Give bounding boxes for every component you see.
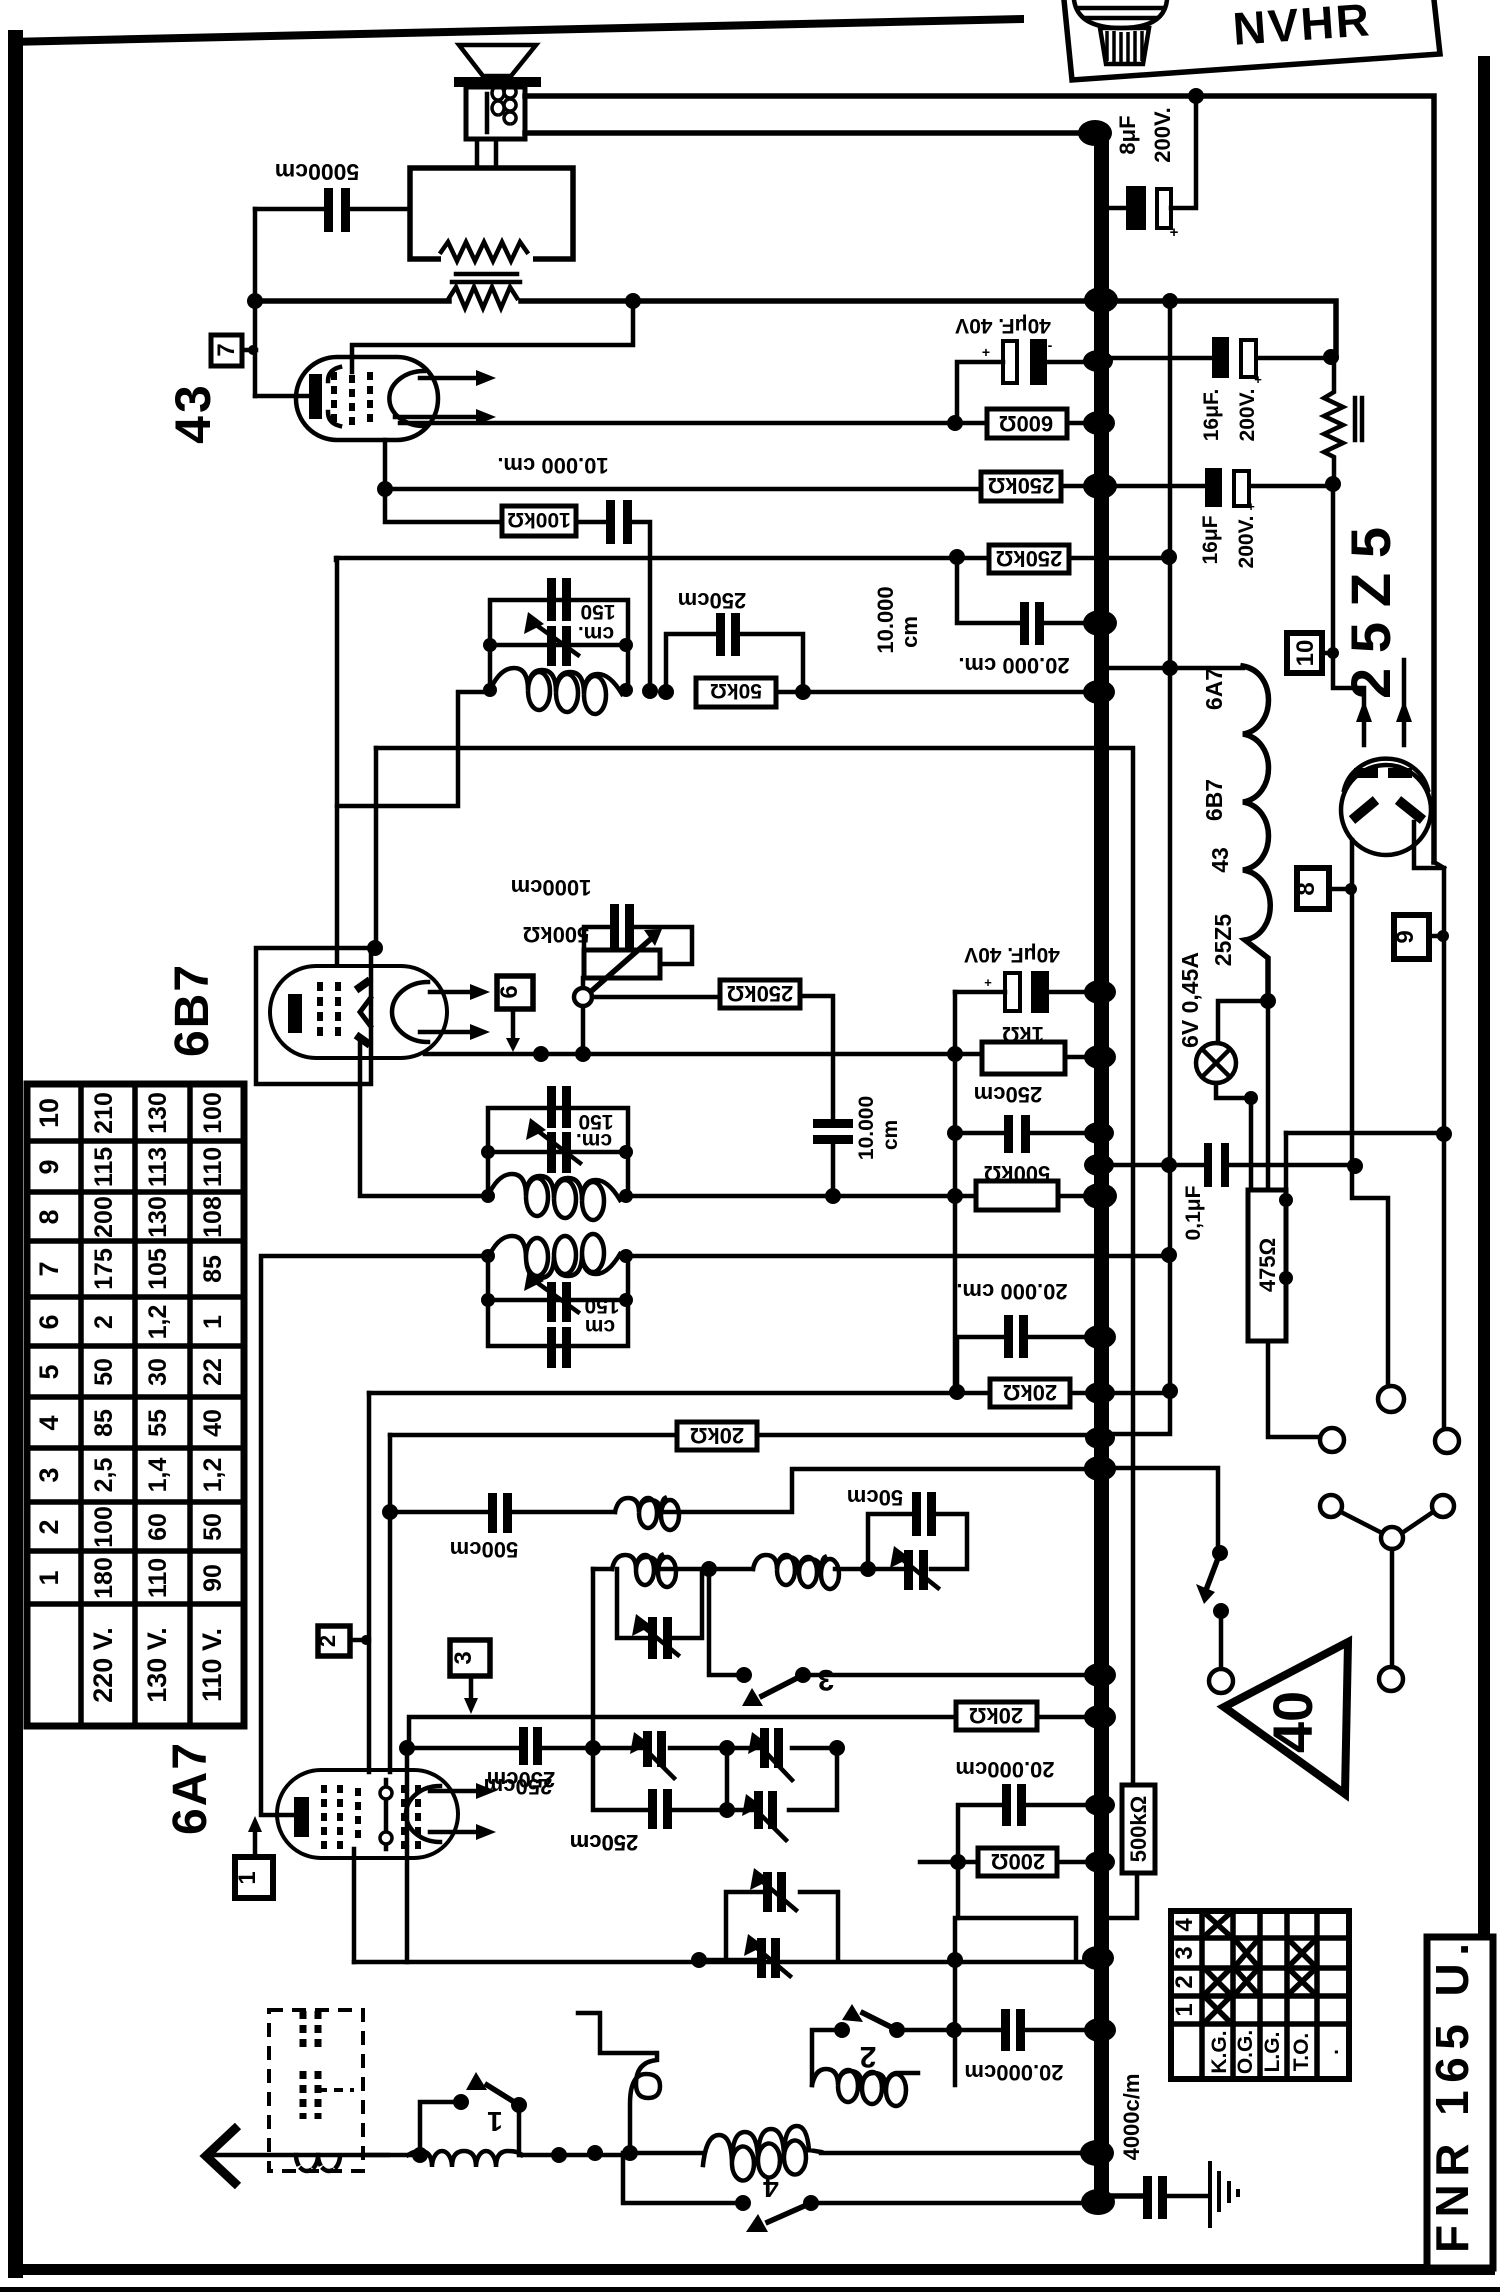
junction blob bus y=1337 [1084, 1325, 1116, 1349]
junction blob bus top [1078, 120, 1112, 146]
oscillator x=593 link [591, 1569, 596, 1748]
junction dot 583,1054 [575, 1046, 591, 1062]
bandswitch 2 [812, 2004, 954, 2085]
heater labels 6A7 6B7 43 25Z5 6V 0,45A [1177, 668, 1236, 1048]
voltage table [27, 1084, 244, 1726]
svg-text:150: 150 [580, 600, 615, 623]
tube 6B7 shield box [256, 948, 371, 1084]
capacitor 20.000cm antenna [954, 2009, 1094, 2085]
junction blob bus y=1440 [1085, 1427, 1115, 1449]
oscillator trimmer under C1 [617, 1569, 702, 1659]
svg-text:180: 180 [90, 1557, 118, 1599]
border frame top (sloped scan) [8, 15, 1024, 46]
svg-text:3: 3 [818, 1663, 835, 1696]
junction dot 1170,1391 [1162, 1383, 1178, 1399]
junction blob bus y=362 [1083, 350, 1113, 372]
NVHR stamp box [1064, 0, 1440, 80]
svg-text:10.000 cm.: 10.000 cm. [497, 453, 608, 478]
resistor 600 ohm [955, 409, 1094, 438]
capacitor 250cm [947, 1082, 1042, 1153]
wire AVC bottom y=1054 [425, 1052, 982, 1057]
svg-text:10: 10 [1292, 640, 1319, 667]
junction dot 1169,1255 [1161, 1247, 1177, 1263]
junction blob bus y=992 [1084, 980, 1116, 1004]
wire x=390 drop to 6A7 [388, 1435, 393, 1772]
wire y=300 main B line [255, 301, 1336, 357]
label 10.000 om [873, 586, 922, 653]
svg-text:100: 100 [90, 1506, 118, 1548]
svg-text:cm: cm [879, 1120, 902, 1150]
IF transformer 3 frame (below) [488, 1256, 628, 1346]
junction blob bus y=1805 [1085, 1794, 1115, 1816]
svg-text:4: 4 [34, 1415, 64, 1430]
IF3 coil on top wire [488, 1234, 620, 1278]
svg-text:90: 90 [199, 1564, 227, 1592]
svg-text:4: 4 [1171, 1918, 1198, 1932]
junction dot 955,1196 [947, 1188, 963, 1204]
IF1 junction dots [483, 638, 633, 697]
svg-text:2: 2 [1171, 1975, 1198, 1988]
svg-text:40μF. 40V: 40μF. 40V [955, 314, 1051, 337]
svg-text:85: 85 [199, 1255, 227, 1283]
junction dot 955,1960 [947, 1952, 963, 1968]
junction dot 255,301 [247, 293, 263, 309]
tube 6B7 envelope [270, 966, 447, 1058]
wire heater chain end to resistor 475 [1266, 1001, 1271, 1190]
capacitor 5000cm [255, 159, 410, 232]
svg-text:T.O.: T.O. [1290, 2033, 1313, 2072]
svg-text:16μF.: 16μF. [1200, 389, 1223, 442]
wire osc cathode y=1918 [955, 1918, 1076, 2085]
svg-text:43: 43 [165, 382, 221, 444]
capacitor 10.000cm coupling [813, 1096, 902, 1196]
IF3 junction dots [481, 1249, 633, 1307]
tube 6A7 grids [324, 1780, 418, 1849]
svg-text:110 V.: 110 V. [197, 1628, 227, 1702]
junction blob bus bottom [1081, 2189, 1115, 2215]
svg-text:60: 60 [144, 1513, 172, 1541]
wire 25Z5 plate line down [1352, 840, 1388, 1386]
earth ground symbol [1210, 2161, 1238, 2228]
svg-text:50kΩ: 50kΩ [710, 679, 762, 702]
svg-text:4000c/m: 4000c/m [1119, 2074, 1144, 2161]
terminal box 1 [234, 1816, 273, 1898]
RF coil 4 loops [703, 2126, 1094, 2181]
junction dot 1357,1166 [1347, 1158, 1363, 1174]
wire osc grid drop x=406 [405, 1748, 410, 1962]
antenna arrow [206, 2126, 388, 2186]
mains switch on bus [1109, 1468, 1233, 1693]
wire speaker to B+ top rail [525, 96, 1434, 862]
terminal circle 475 line [1320, 1428, 1344, 1452]
svg-text:43: 43 [1207, 847, 1233, 873]
junction blob bus y=423 [1083, 411, 1115, 435]
oscillator trimmer on main line [890, 1546, 938, 1590]
wire IF1 secondary to bus y=692 [776, 690, 1096, 695]
pickup Y terminals [1320, 1495, 1454, 1691]
junction dot 1170,301 [1162, 293, 1178, 309]
tube 25Z5 envelope [1341, 759, 1431, 855]
svg-text:-: - [1048, 337, 1053, 353]
svg-text:20kΩ: 20kΩ [1003, 1380, 1057, 1405]
return line x=1170 [1109, 301, 1170, 1434]
speaker cone [454, 45, 541, 87]
svg-text:115: 115 [90, 1147, 118, 1187]
label 25Z5 large [1339, 527, 1402, 699]
svg-text:6B7: 6B7 [1201, 779, 1227, 821]
capacitor 40uF 40V second [955, 943, 1094, 1013]
svg-text:500kΩ: 500kΩ [1126, 1796, 1151, 1863]
svg-text:+: + [1254, 372, 1262, 387]
resistor 500k vertical [1109, 1785, 1155, 1918]
resistor 100k with coupling cap [385, 489, 650, 688]
svg-text:1,2: 1,2 [144, 1305, 172, 1340]
wire left drop from 5000cm to 43 grid node [253, 209, 258, 396]
voltage table 220V column [88, 1092, 118, 1703]
svg-text:6V 0,45A: 6V 0,45A [1177, 952, 1203, 1048]
svg-text:200V.: 200V. [1235, 516, 1258, 569]
svg-text:10: 10 [34, 1098, 64, 1128]
oscillator grid row y=1748 [407, 1727, 845, 1799]
junction dots 647/663 y=692 [642, 683, 674, 700]
junction dot 1169,1165 [1161, 1157, 1177, 1173]
junction blob bus y=1958 [1082, 1946, 1114, 1970]
svg-text:30: 30 [144, 1358, 172, 1386]
IF3 fixed capacitor [547, 1327, 571, 1368]
terminal box 9 [1392, 915, 1449, 959]
svg-text:1: 1 [199, 1315, 227, 1329]
resistor 250k AVC [989, 545, 1069, 573]
junction blob bus y=300 [1084, 287, 1118, 313]
svg-text:1: 1 [487, 2106, 503, 2137]
svg-text:40μF. 40V: 40μF. 40V [964, 943, 1060, 966]
antenna adapter dashed box [269, 2010, 420, 2171]
border frame bottom [0, 2264, 1500, 2292]
junction blob bus y=1717 [1084, 1705, 1116, 1729]
svg-text:L.G.: L.G. [1261, 2032, 1284, 2073]
svg-text:25Z5: 25Z5 [1339, 527, 1402, 699]
svg-text:cm.: cm. [578, 622, 614, 645]
junction blob bus y=1675 [1084, 1663, 1116, 1687]
junction dot 595,2152 [587, 2145, 603, 2161]
IF1 fixed capacitor 150cm [547, 578, 571, 621]
IF transformer 1 frame [490, 600, 628, 692]
terminal box 2 [315, 1626, 371, 1656]
svg-text:20.000cm: 20.000cm [964, 2060, 1063, 2085]
svg-text:1: 1 [234, 1871, 261, 1884]
IF2 trimmer capacitor 450cm [526, 1110, 614, 1173]
resistor 50k [696, 678, 776, 707]
junction dot 803,692 [795, 684, 811, 700]
junction blob bus y=2153 [1080, 2140, 1114, 2166]
terminal box 8 [1293, 868, 1357, 909]
svg-text:105: 105 [144, 1248, 172, 1290]
junction blob bus y=1196 [1083, 1183, 1117, 1209]
padder capacitor 50cm [847, 1485, 936, 1536]
wire 250cm-to-plate rail y=1133 [1030, 1122, 1444, 1144]
oscillator coil wire y=1569 [593, 1514, 967, 1569]
wire y=1717 with resistor 20k third [409, 1702, 1094, 1748]
junction dot 699,1960 [691, 1952, 707, 1968]
svg-text:+: + [984, 975, 992, 990]
svg-text:250cm: 250cm [678, 588, 747, 613]
tube 43 cathode [255, 374, 322, 419]
wire 43 grid elbow [352, 301, 633, 372]
tube 25Z5 electrodes [1352, 768, 1423, 820]
tube 6B7 plate lead arrows [420, 984, 490, 1040]
svg-text:200V.: 200V. [1150, 107, 1175, 162]
junction blob bus y=2030 [1084, 2018, 1116, 2042]
junction dot 1170,668 [1162, 660, 1178, 676]
junction dot 390,1512 [382, 1504, 398, 1520]
svg-text:130: 130 [144, 1092, 172, 1134]
resistor 475 ohm tapped [1248, 1133, 1293, 1341]
svg-text:1,4: 1,4 [144, 1458, 172, 1493]
svg-text:113: 113 [144, 1147, 172, 1187]
svg-text:7: 7 [34, 1261, 64, 1276]
svg-text:500cm: 500cm [450, 1537, 519, 1562]
svg-text:2,5: 2,5 [90, 1458, 118, 1493]
svg-text:175: 175 [90, 1248, 118, 1290]
svg-text:1: 1 [1171, 2003, 1198, 2016]
junction dot 541,1054 [533, 1046, 549, 1062]
svg-text:cm: cm [585, 1315, 615, 1338]
wire IF3 top to 6A7 cathode line [261, 1256, 488, 1815]
svg-text:250cm: 250cm [974, 1082, 1043, 1107]
wire 6B7 grid-cap vertical [335, 558, 340, 963]
junction dot 957,1392 [949, 1384, 965, 1400]
svg-text:1000cm: 1000cm [511, 875, 592, 900]
svg-text:250cm: 250cm [570, 1830, 639, 1855]
junction blob bus y=623 [1083, 610, 1117, 636]
svg-text:10.000: 10.000 [855, 1096, 878, 1160]
6A7 grid wire y=1960 [354, 1960, 1094, 1965]
wire 25Z5 cathode to B+ rail down right [1414, 822, 1444, 1428]
oscillator coil C1 [612, 1555, 676, 1587]
svg-text:cm: cm [897, 616, 922, 648]
svg-text:6A7: 6A7 [164, 1741, 217, 1835]
HT bus (thick vertical) [1094, 126, 1109, 2208]
tube 43 grids [328, 367, 370, 426]
svg-text:6B7: 6B7 [166, 963, 219, 1057]
svg-text:1: 1 [34, 1570, 64, 1585]
svg-text:2: 2 [860, 2040, 877, 2073]
terminal box 10 [1287, 633, 1339, 673]
svg-text:200V.: 200V. [1236, 389, 1259, 442]
capacitor 20.000cm osc anode [955, 1757, 1094, 1862]
terminal circle plate line [1378, 1386, 1404, 1412]
junction dot 374,948 [367, 940, 383, 956]
svg-text:25Z5: 25Z5 [1210, 914, 1236, 967]
terminal box 7 [211, 335, 258, 366]
svg-text:2: 2 [34, 1519, 64, 1534]
svg-text:5000cm: 5000cm [275, 159, 359, 185]
junction dot 955,1054 [947, 1046, 963, 1062]
pigtail coupling coil [578, 2013, 660, 2161]
wire y=1393 with resistor 20k [369, 1379, 1170, 1407]
padband switch 3 [709, 1571, 1094, 1706]
svg-text:.: . [1320, 2049, 1343, 2055]
svg-text:+: + [982, 344, 990, 360]
svg-text:40: 40 [1261, 1691, 1324, 1753]
svg-text:3: 3 [1171, 1946, 1198, 1959]
label tube 6B7 [166, 963, 219, 1057]
oscillator coil C2 [753, 1555, 839, 1589]
capacitor 1000cm tone [511, 875, 634, 950]
svg-text:NVHR: NVHR [1231, 0, 1373, 55]
svg-text:K.G.: K.G. [1208, 2030, 1231, 2073]
junction dot 955,423 [947, 415, 963, 431]
wire screen line y=748 [376, 748, 1133, 1785]
svg-text:250cm: 250cm [487, 1767, 556, 1792]
junction blob bus y=1862 [1085, 1851, 1115, 1873]
AVC chain vertical x=955 [953, 992, 958, 1393]
svg-text:1kΩ: 1kΩ [1002, 1022, 1044, 1047]
resistor hum (zigzag on main wire) [449, 287, 517, 308]
IF transformer 2 frame [488, 1108, 628, 1196]
junction dot 1333,484 [1325, 476, 1341, 492]
voltage table 110V column [197, 1092, 227, 1702]
wire 6B7 second grid drop [374, 748, 379, 948]
wire IF1 left to 6B7 grid [337, 692, 490, 806]
junction dot 406,1748 [399, 1740, 415, 1756]
capacitor 16uF 200V upper [1109, 337, 1331, 441]
junction blob bus y=486 [1083, 473, 1117, 499]
svg-text:4: 4 [763, 2172, 779, 2203]
junction dot 957,557 [949, 549, 965, 565]
switch table row digits [1171, 1918, 1198, 2017]
svg-text:55: 55 [144, 1409, 172, 1437]
output transformer box [410, 168, 573, 263]
svg-text:475Ω: 475Ω [1255, 1238, 1280, 1292]
svg-text:9: 9 [1392, 930, 1419, 943]
wire speaker box down to output transformer [477, 139, 496, 168]
resistor 250k (screen) [981, 472, 1094, 501]
resistor 200 ohm [920, 1848, 1094, 1918]
svg-text:108: 108 [199, 1196, 227, 1238]
tube 6A7 cathode [294, 1797, 309, 1837]
svg-text:40: 40 [199, 1409, 227, 1437]
svg-text:20kΩ: 20kΩ [690, 1423, 744, 1448]
NVHR text [1231, 0, 1373, 55]
svg-text:5: 5 [34, 1364, 64, 1379]
tube 6B7 grids and diode plates [320, 980, 372, 1045]
terminal box 6 [496, 976, 533, 1052]
IF1 primary coil [490, 668, 622, 714]
svg-text:100kΩ: 100kΩ [507, 508, 571, 531]
speaker voice-coil box [466, 86, 525, 139]
svg-text:85: 85 [90, 1409, 118, 1437]
svg-text:8μF: 8μF [1115, 115, 1140, 154]
junction dot 833,1196 [825, 1188, 841, 1204]
svg-text:8: 8 [1293, 882, 1320, 895]
terminal circle B+ line [1435, 1429, 1459, 1453]
svg-text:6: 6 [496, 985, 523, 998]
junction blob bus y=1469 [1084, 1457, 1116, 1481]
junction dot 1331,357 [1323, 349, 1339, 365]
svg-text:3: 3 [34, 1467, 64, 1482]
svg-text:FNR 165 U.: FNR 165 U. [1426, 1943, 1478, 2253]
svg-text:50: 50 [199, 1513, 227, 1541]
svg-text:500kΩ: 500kΩ [523, 922, 590, 947]
junction dot heater chain end [1260, 993, 1276, 1009]
label tube 43 [165, 382, 221, 444]
tube 43 envelope [296, 357, 438, 440]
capacitor 20.000cm AVC2 [956, 1279, 1094, 1393]
svg-text:210: 210 [90, 1092, 118, 1134]
junction blob bus y=1057 [1084, 1045, 1116, 1069]
svg-text:cm.: cm. [576, 1129, 612, 1152]
voltage table column of pin numbers [34, 1098, 64, 1586]
voltage table 130V column [142, 1092, 172, 1703]
IF2 fixed capacitor [547, 1086, 571, 1128]
IF2 coil [488, 1174, 620, 1220]
svg-text:3: 3 [450, 1651, 477, 1664]
resistor vertical zigzag (filter choke) [1324, 357, 1362, 484]
wire IF3 secondary y=1256 to right [628, 1254, 1169, 1259]
resistor 500k IF2 [976, 1161, 1094, 1210]
junction blob bus y=1165 [1084, 1154, 1114, 1176]
wire x=369 drop to 6A7 [367, 1393, 372, 1772]
capacitor 16uF 200V lower [1109, 468, 1331, 568]
junction dot 559,2155 [551, 2147, 567, 2163]
svg-text:20kΩ: 20kΩ [969, 1703, 1023, 1728]
oscillator feed wire y=1512 with 500cm cap and coupling coil [390, 1469, 1094, 1562]
junction dots oscillator [701, 1561, 876, 1577]
svg-text:+: + [1170, 224, 1179, 241]
volume pot 500k [523, 922, 692, 1054]
wire y=1435 with resistor 20k second [390, 1422, 1094, 1450]
border frame right [1478, 56, 1490, 1940]
svg-text:50cm: 50cm [847, 1485, 903, 1510]
junction dot 1169,557 [1161, 549, 1177, 565]
svg-text:220 V.: 220 V. [88, 1627, 118, 1703]
IF2 junction dots [481, 1145, 633, 1203]
svg-text:500kΩ: 500kΩ [984, 1161, 1051, 1186]
wire to RF coil y=2155 [630, 2151, 703, 2156]
svg-text:2: 2 [315, 1635, 340, 1647]
earth switch 4 [623, 2153, 1094, 2232]
capacitor 20.000cm AVC decoupling [957, 557, 1094, 678]
switch table column labels [1208, 2030, 1343, 2074]
capacitor 4000cm to earth [1109, 2074, 1208, 2219]
svg-text:50: 50 [90, 1358, 118, 1386]
svg-text:110: 110 [199, 1147, 227, 1187]
svg-text:20.000cm: 20.000cm [955, 1757, 1054, 1782]
svg-text:250kΩ: 250kΩ [727, 981, 794, 1006]
wire IF2 secondary y=1196 [628, 1194, 976, 1199]
pilot lamp 6V [1196, 1001, 1268, 1190]
svg-text:8: 8 [34, 1209, 64, 1224]
wire 1333 down to 25Z5 plate arrows [1333, 484, 1412, 745]
IF3 trimmer capacitor [524, 1269, 620, 1338]
label tube 6A7 [164, 1741, 217, 1835]
svg-text:2: 2 [90, 1315, 118, 1329]
svg-text:9: 9 [34, 1159, 64, 1174]
triangle mark 40 [1224, 1642, 1348, 1794]
svg-text:250kΩ: 250kΩ [988, 473, 1055, 498]
svg-text:16μF: 16μF [1199, 515, 1222, 564]
svg-text:130: 130 [144, 1196, 172, 1238]
wire 6A7 signal grid drop [352, 1849, 357, 1962]
tube 6B7 cathode [288, 994, 302, 1033]
svg-text:+: + [1247, 499, 1255, 514]
tube 6A7 envelope [277, 1770, 458, 1858]
wire 6B7 diode lead down [360, 1040, 488, 1196]
terminal box 3 [450, 1640, 490, 1714]
NVHR logo light bulb [1074, 0, 1167, 64]
IF1 trimmer capacitor [524, 600, 616, 666]
